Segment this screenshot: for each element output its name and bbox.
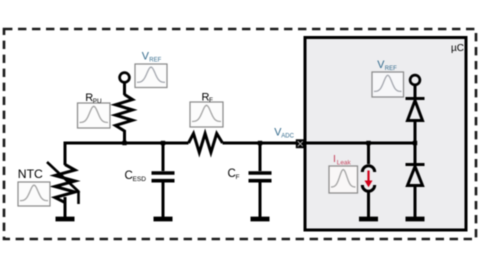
svg-text:REF: REF <box>149 57 161 63</box>
svg-text:F: F <box>209 97 213 104</box>
svg-text:ADC: ADC <box>281 133 294 139</box>
svg-text:PU: PU <box>93 98 102 105</box>
svg-text:ESD: ESD <box>133 176 147 183</box>
svg-text:NTC: NTC <box>18 167 43 181</box>
svg-text:REF: REF <box>385 66 397 72</box>
svg-text:µC: µC <box>451 43 464 54</box>
svg-text:Leak: Leak <box>337 160 352 167</box>
svg-text:I: I <box>333 153 336 165</box>
svg-text:F: F <box>236 174 240 181</box>
